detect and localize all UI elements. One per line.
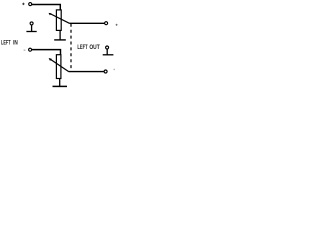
potentiometer R2 body (56, 55, 61, 79)
wire mid input to pot R2 top (32, 50, 61, 55)
pot R2 wiper arrow (49, 58, 69, 72)
ground-side terminal post below input (circle) (30, 22, 33, 25)
post base bar (26, 31, 36, 33)
ground bar below R2 (53, 85, 68, 87)
svg-text:LEFT: LEFT (1, 40, 11, 47)
wire R1 wiper to output (69, 22, 104, 24)
wire input to pot R1 top (32, 5, 60, 10)
faint plus mark mid-left (24, 49, 26, 51)
terminal mid input (circle) (29, 48, 32, 51)
svg-text:IN: IN (13, 40, 18, 47)
wire R1 bottom lead (59, 30, 61, 40)
svg-text:OUT: OUT (89, 44, 99, 51)
terminal output bottom (circle) (104, 70, 107, 73)
plus mark near top output (116, 24, 118, 26)
ground-side terminal post right (circle) (106, 46, 109, 49)
post stem (31, 25, 33, 32)
wire R2 bottom lead (59, 79, 61, 87)
terminal input top (circle) (29, 3, 32, 6)
post stem (106, 49, 108, 55)
svg-text:LEFT: LEFT (77, 44, 87, 51)
faint dot near bottom output (113, 69, 115, 71)
potentiometer R1 body (56, 10, 61, 31)
post base bar (103, 54, 114, 56)
pot R1 wiper arrow (49, 13, 70, 23)
plus polarity mark top-left (22, 3, 24, 5)
wire R2 wiper to output (69, 71, 104, 73)
ground bar below R1 (54, 39, 66, 41)
terminal output top (circle) (105, 22, 108, 25)
gang dashed link between wipers (70, 24, 72, 72)
